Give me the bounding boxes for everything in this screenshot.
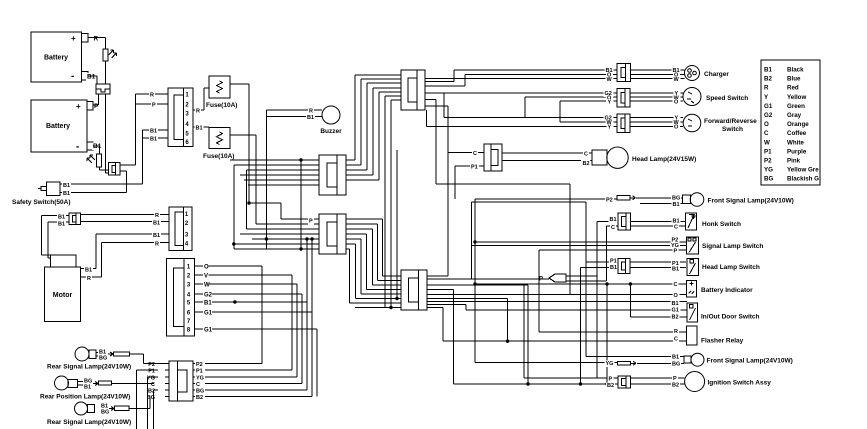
svg-text:P2: P2 (764, 158, 772, 165)
svg-text:Gray: Gray (787, 112, 802, 119)
svg-text:-: - (71, 71, 74, 82)
svg-text:Signal Lamp Switch: Signal Lamp Switch (702, 243, 763, 250)
svg-text:Battery Indicator: Battery Indicator (701, 287, 753, 294)
svg-text:R: R (309, 109, 313, 115)
svg-text:+: + (71, 34, 76, 43)
svg-text:Forward/Reverse: Forward/Reverse (704, 118, 757, 125)
svg-text:P2: P2 (148, 362, 155, 368)
svg-text:Rear Signal Lamp(24V10W): Rear Signal Lamp(24V10W) (47, 419, 131, 426)
svg-text:B2: B2 (672, 383, 679, 389)
svg-text:C: C (473, 151, 477, 157)
svg-text:Purple: Purple (787, 148, 807, 155)
svg-text:Speed Switch: Speed Switch (706, 95, 748, 102)
svg-text:O: O (674, 293, 679, 299)
svg-text:Motor: Motor (53, 292, 73, 299)
svg-text:B1: B1 (153, 221, 160, 227)
svg-text:-: - (76, 142, 79, 153)
svg-text:Safety Switch(50A): Safety Switch(50A) (12, 199, 71, 206)
svg-text:Coffee: Coffee (787, 130, 807, 137)
svg-text:C: C (196, 382, 200, 388)
svg-text:B1: B1 (610, 265, 617, 271)
svg-text:R: R (87, 276, 91, 282)
svg-text:BG: BG (99, 356, 107, 362)
svg-text:B1: B1 (764, 67, 772, 74)
svg-text:P2: P2 (606, 198, 613, 204)
svg-text:C: C (674, 337, 678, 343)
svg-text:O: O (674, 100, 679, 106)
svg-text:Flasher Relay: Flasher Relay (701, 338, 744, 345)
svg-text:BG: BG (672, 362, 680, 368)
svg-text:B1: B1 (84, 385, 91, 391)
svg-text:B1: B1 (672, 301, 679, 307)
svg-text:B1: B1 (307, 115, 314, 121)
svg-text:Switch: Switch (722, 126, 743, 133)
svg-text:C: C (584, 152, 588, 158)
svg-text:V: V (204, 274, 208, 280)
svg-text:R: R (94, 36, 99, 43)
svg-text:P: P (152, 103, 156, 109)
svg-text:P: P (309, 219, 313, 225)
svg-text:P: P (609, 377, 613, 383)
svg-text:BG: BG (764, 176, 773, 183)
svg-text:P: P (539, 277, 543, 283)
svg-text:W: W (764, 139, 770, 146)
svg-text:Buzzer: Buzzer (320, 128, 342, 135)
svg-text:Battery: Battery (44, 55, 68, 62)
svg-text:G1: G1 (204, 328, 213, 334)
svg-text:BG: BG (196, 389, 204, 395)
svg-text:YG: YG (196, 376, 204, 382)
svg-text:Pink: Pink (787, 158, 801, 165)
svg-text:Black: Black (787, 67, 804, 74)
svg-text:B1: B1 (196, 126, 203, 132)
svg-text:Yellow: Yellow (787, 94, 806, 101)
svg-text:B1: B1 (63, 191, 70, 197)
svg-text:B1: B1 (153, 233, 160, 239)
svg-text:B1: B1 (204, 301, 212, 307)
svg-text:W: W (674, 77, 680, 83)
svg-text:P1: P1 (148, 369, 155, 375)
svg-text:R: R (196, 109, 200, 115)
svg-text:O: O (764, 121, 769, 128)
svg-text:C: C (674, 225, 678, 231)
svg-text:Rear Signal Lamp(24V10W): Rear Signal Lamp(24V10W) (47, 364, 131, 371)
svg-text:C: C (611, 225, 615, 231)
svg-text:G1: G1 (764, 103, 773, 110)
svg-text:Blue: Blue (787, 76, 801, 83)
svg-text:Blackish G: Blackish G (787, 176, 819, 183)
svg-text:YG: YG (606, 361, 614, 367)
svg-text:YG: YG (764, 167, 773, 174)
svg-text:G1: G1 (204, 310, 213, 316)
svg-text:P1: P1 (196, 369, 203, 375)
svg-text:Rear Position Lamp(24V10W): Rear Position Lamp(24V10W) (40, 394, 130, 401)
svg-text:Charger: Charger (704, 71, 729, 78)
svg-text:Front Signal Lamp(24V10W): Front Signal Lamp(24V10W) (708, 198, 794, 205)
svg-text:B1: B1 (87, 74, 96, 81)
svg-text:B1: B1 (150, 129, 157, 135)
svg-text:Fuse(10A): Fuse(10A) (203, 153, 234, 160)
svg-text:BG: BG (672, 196, 680, 202)
svg-text:Head Lamp(24V15W): Head Lamp(24V15W) (632, 156, 696, 163)
svg-text:C: C (764, 130, 769, 137)
svg-text:B1: B1 (673, 202, 680, 208)
svg-text:C: C (151, 382, 155, 388)
svg-text:Head Lamp Switch: Head Lamp Switch (702, 264, 760, 271)
svg-text:R: R (155, 242, 159, 248)
svg-text:B2: B2 (607, 383, 614, 389)
svg-text:W: W (204, 283, 210, 289)
svg-text:Red: Red (787, 85, 799, 92)
svg-text:P: P (674, 249, 678, 255)
svg-text:B1: B1 (58, 222, 65, 228)
svg-text:R: R (155, 213, 159, 219)
svg-text:Ignition Switch Assy: Ignition Switch Assy (708, 380, 772, 387)
svg-text:White: White (787, 139, 804, 146)
svg-text:B1: B1 (672, 355, 679, 361)
svg-text:Yellow Gre: Yellow Gre (787, 167, 819, 174)
svg-text:O: O (674, 125, 679, 131)
svg-text:W: W (607, 77, 613, 83)
svg-text:B2: B2 (764, 76, 772, 83)
svg-text:Battery: Battery (46, 123, 70, 130)
svg-text:G1: G1 (672, 308, 679, 314)
svg-text:P1: P1 (764, 148, 772, 155)
svg-text:B2: B2 (583, 161, 590, 167)
svg-text:Y: Y (608, 125, 612, 131)
svg-text:Orange: Orange (787, 121, 809, 128)
svg-text:B1: B1 (58, 215, 65, 221)
svg-text:B1: B1 (672, 267, 679, 273)
svg-text:B2: B2 (196, 395, 203, 401)
svg-text:B1: B1 (63, 183, 70, 189)
svg-text:In/Out Door Switch: In/Out Door Switch (701, 314, 760, 321)
svg-text:P1: P1 (610, 259, 617, 265)
svg-text:Green: Green (787, 103, 805, 110)
svg-text:B1: B1 (85, 268, 92, 274)
svg-text:R: R (150, 93, 154, 99)
svg-text:BG: BG (101, 410, 109, 416)
svg-text:Front Signal Lamp(24V10W): Front Signal Lamp(24V10W) (707, 358, 793, 365)
svg-text:P2: P2 (196, 362, 203, 368)
svg-text:Honk Switch: Honk Switch (702, 221, 741, 228)
svg-text:R: R (674, 329, 678, 335)
svg-text:B1: B1 (150, 137, 157, 143)
svg-text:O: O (204, 265, 209, 271)
svg-text:R: R (764, 85, 769, 92)
svg-text:P: P (673, 376, 677, 382)
svg-text:G2: G2 (764, 112, 773, 119)
svg-text:G2: G2 (204, 293, 213, 299)
svg-text:Fuse(10A): Fuse(10A) (206, 102, 237, 109)
svg-text:B2: B2 (672, 315, 679, 321)
svg-text:+: + (76, 102, 81, 111)
svg-text:C: C (674, 282, 678, 288)
svg-text:YG: YG (147, 376, 155, 382)
svg-text:B1: B1 (610, 217, 617, 223)
svg-text:P1: P1 (471, 165, 478, 171)
svg-text:Y: Y (608, 100, 612, 106)
